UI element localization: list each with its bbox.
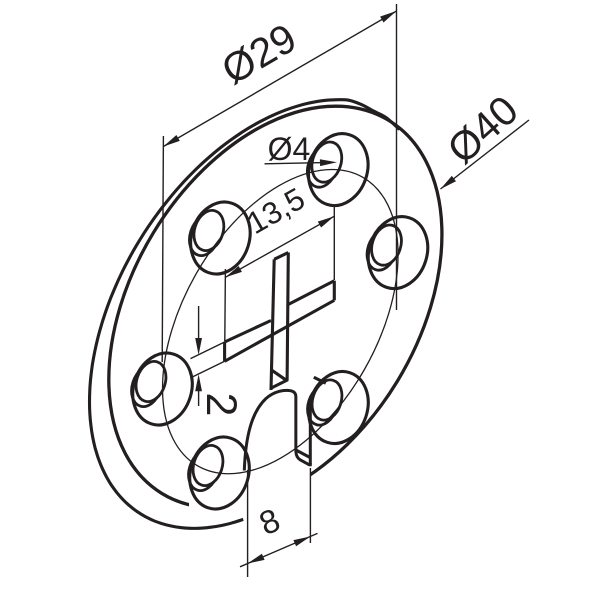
dim 8 line [240,533,318,566]
dim 2 ext upper [191,342,225,359]
notch left/top outline [244,390,310,470]
cross slot right arm top edge [287,281,334,305]
cross slot bottom face lower edge [272,380,288,388]
cross slot vertical left edge [271,259,274,390]
dim 13,5 ext right [333,207,335,280]
dim D29 extension right [396,4,398,310]
dim 2 arrow line upper [198,306,200,340]
cross slot long lower edge [225,300,335,361]
dim D29 extension left [162,136,163,362]
disc bottom rim arc [90,100,400,529]
cross slot left end cap [223,342,226,361]
cross slot left arm top edge [225,321,271,343]
dim 13,5 line [225,216,334,277]
notch gap eraser [246,448,310,556]
notch wall inner diagonal [296,450,309,457]
dim 2 arrow line lower [198,390,200,406]
bottom sliver eraser [189,489,252,518]
dim 8 ext right [309,468,311,543]
hole upper-right [359,209,437,296]
dim D40 leader [441,120,530,189]
svg-text:Ø4: Ø4 [268,131,311,167]
svg-text:2: 2 [197,393,245,417]
hole top [300,126,378,213]
dim 8 ext left [247,470,249,577]
pitch circle (bolt circle) [114,129,447,514]
hole left [124,345,202,432]
hole upper-left [182,194,260,281]
dim D29 line [163,11,396,147]
cross slot top cap [274,253,288,260]
dim D4 leader/underline [265,162,331,163]
dim D29 arrows [163,135,179,147]
hole lower-right [300,364,378,451]
notch wall top junction [314,377,326,383]
cross slot bottom face upper edge [271,370,287,381]
dim 13,5 ext left [224,269,227,341]
notch right wall outer edge [309,404,312,467]
dim 2 ext lower [191,361,225,378]
cross slot right end cap [333,281,336,301]
cross slot vertical right edge [287,253,288,381]
hole bottom [181,429,259,516]
disc top face [40,46,511,567]
